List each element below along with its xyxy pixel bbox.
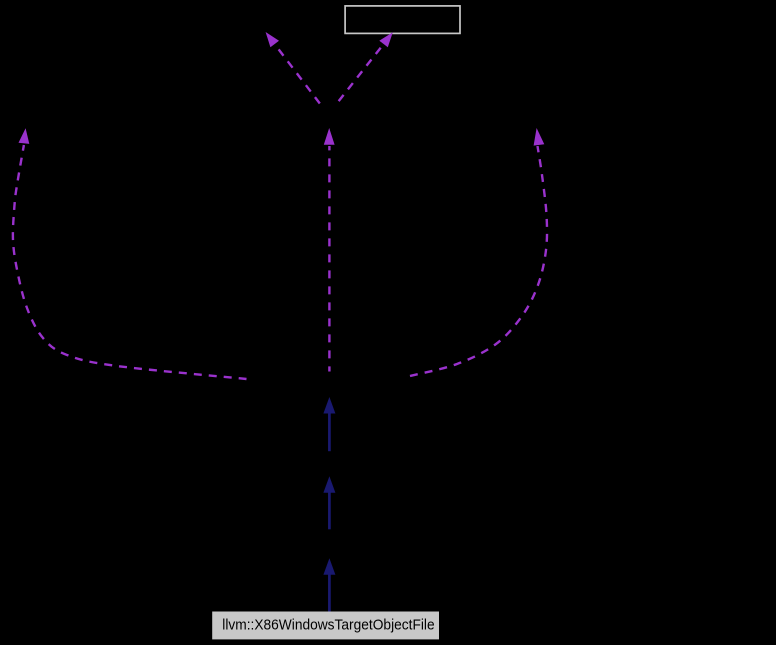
wire edge: inheritance arrow 2 (solid blue, middle)	[323, 476, 335, 529]
svg-text:llvm::X86WindowsTargetObjectFi: llvm::X86WindowsTargetObjectFile	[222, 618, 434, 634]
wire edge: dashed usage edge to top-left node	[266, 32, 320, 104]
wire edge: right swooping dashed usage edge	[410, 128, 547, 376]
wire edge: inheritance arrow 3 (solid blue, bottom)	[323, 558, 335, 611]
wire edge: center vertical dashed usage edge	[324, 128, 335, 372]
node llvm::X86WindowsTargetObjectFile (bottom box)	[213, 612, 439, 639]
node MCObjectFileInfo (top box, empty)	[345, 6, 460, 34]
wire edge: left swooping dashed usage edge	[13, 128, 247, 379]
wire edge: dashed usage edge into top box	[337, 32, 393, 103]
wire edge: inheritance arrow 1 (solid blue, topmost)	[323, 397, 335, 451]
